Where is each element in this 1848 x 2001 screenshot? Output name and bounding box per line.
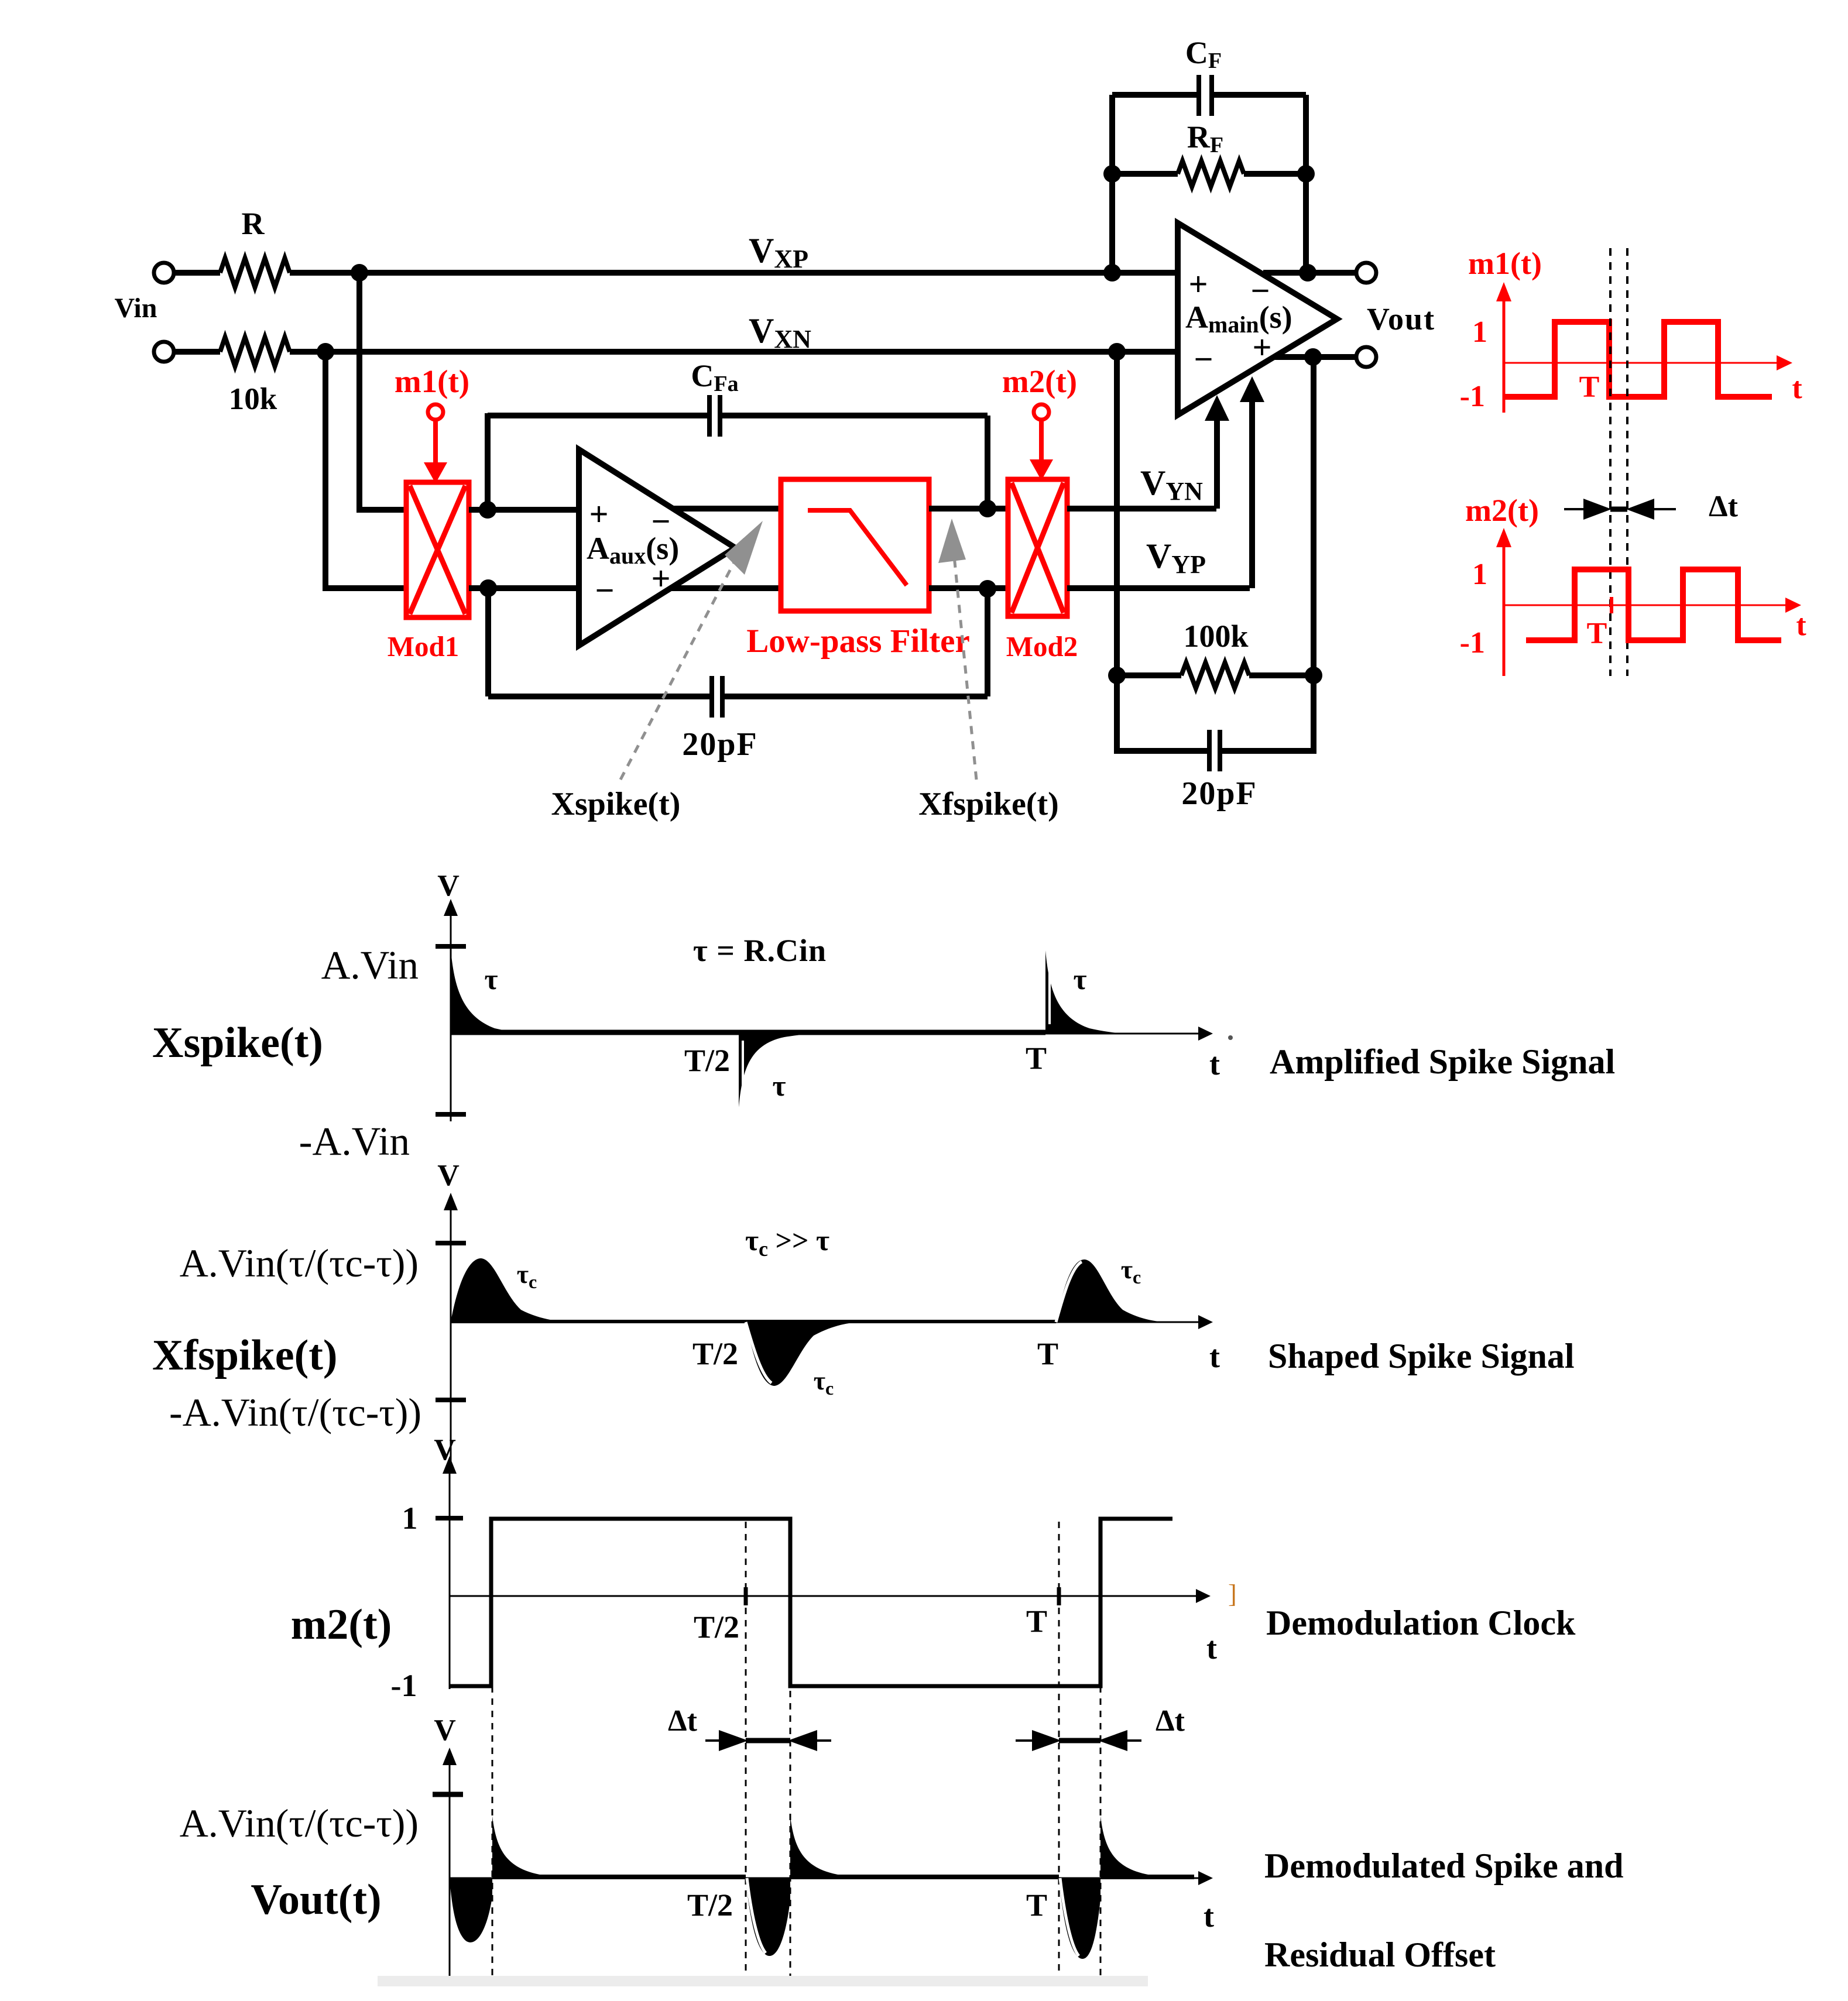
junction 100k right <box>1305 667 1322 684</box>
wire CFa feedback top run <box>488 413 709 418</box>
dashed arrow Xspike to Aaux output <box>620 550 740 780</box>
m2 clock terminal <box>1034 404 1049 420</box>
filter response curve <box>808 510 907 585</box>
svg-text:-1: -1 <box>391 1668 417 1703</box>
wire CFa feedback right riser <box>985 416 990 509</box>
dashed arrow Xfspike to filter output <box>954 556 976 780</box>
m1 mini plot x axis <box>1504 362 1780 364</box>
svg-text:-A.Vin: -A.Vin <box>299 1119 410 1163</box>
svg-text:-1: -1 <box>1460 380 1485 413</box>
stray dot artifact <box>1228 1035 1233 1040</box>
wire Mod2 upper output VYN <box>1067 506 1216 512</box>
svg-text:A.Vin(τ/(τc-τ)): A.Vin(τ/(τc-τ)) <box>180 1241 419 1285</box>
wire 20pF aux feedback right riser <box>985 589 990 696</box>
resistor 10k <box>220 337 290 366</box>
plot4 tick A.Vin(tau/(tauc-tau)) <box>433 1792 463 1797</box>
junction feedback at VXP rail <box>1103 264 1121 282</box>
svg-text:m2(t): m2(t) <box>1465 493 1539 528</box>
m2 mini plot x axis <box>1504 605 1788 606</box>
resistor 100k <box>1181 663 1249 688</box>
red tick on m2 mini axis <box>1610 597 1613 613</box>
svg-text:t: t <box>1204 1899 1214 1934</box>
svg-text:T: T <box>1579 370 1600 404</box>
plot4 positive spike at T+dt <box>1100 1816 1206 1878</box>
plot4 negative lobe at T/2 <box>746 1878 790 1956</box>
svg-text:τ: τ <box>772 1069 786 1102</box>
svg-text:Xfspike(t): Xfspike(t) <box>918 786 1059 822</box>
plot4 positive spike at t=0+ <box>492 1816 620 1878</box>
junction RF right <box>1297 165 1315 183</box>
svg-text:T/2: T/2 <box>687 1887 733 1923</box>
plot2 x axis <box>451 1322 1201 1323</box>
plot3 square wave <box>450 1519 1172 1686</box>
wire Vin- to resistor 10k <box>174 349 220 355</box>
plot1 x axis <box>451 1033 1201 1035</box>
svg-text:Vout: Vout <box>1367 301 1435 337</box>
svg-text:100k: 100k <box>1183 619 1248 654</box>
plot2 y axis <box>450 1207 452 1469</box>
svg-text:+: + <box>1188 265 1208 303</box>
svg-text:T: T <box>1037 1336 1058 1371</box>
plot3 T/2 axis tick <box>744 1587 748 1605</box>
plot1 spike at T <box>1045 950 1130 1034</box>
plot1 signal baseline (tail riding axis) <box>451 1030 1045 1035</box>
svg-text:T/2: T/2 <box>692 1336 738 1371</box>
capacitor CFa plates <box>707 395 712 437</box>
arrow VYP into Amain <box>1240 376 1264 402</box>
junction Vout- sense node <box>1304 348 1322 366</box>
wire filter lower output to Mod2 <box>929 585 1008 591</box>
VYN riser into Amain <box>1214 410 1220 509</box>
svg-text:10k: 10k <box>229 382 277 416</box>
bottom grey bar <box>378 1976 1148 1986</box>
svg-text:Shaped Spike Signal: Shaped Spike Signal <box>1268 1337 1575 1375</box>
wire 20pF aux feedback bottom run <box>488 694 712 699</box>
plot3 T axis tick <box>1057 1587 1061 1605</box>
input terminal Vin positive <box>154 263 174 283</box>
wire VXP rail <box>359 270 1178 276</box>
svg-text:1: 1 <box>1472 315 1487 349</box>
svg-text:t: t <box>1206 1631 1217 1666</box>
svg-text:-A.Vin(τ/(τc-τ)): -A.Vin(τ/(τc-τ)) <box>169 1390 421 1434</box>
dashed timing line at T <box>1058 1522 1060 1981</box>
output terminal Vout- <box>1356 347 1376 367</box>
op-amp Amain <box>1178 223 1337 415</box>
plot4 negative lobe at T <box>1059 1878 1100 1959</box>
wire Amain upper output to Vout+ <box>1263 270 1357 276</box>
20pF sense loop left side <box>1117 675 1209 751</box>
svg-text:T/2: T/2 <box>684 1043 730 1078</box>
svg-text:+: + <box>651 560 670 598</box>
junction RF left <box>1103 165 1121 183</box>
capacitor 20pF sense plates <box>1207 730 1212 771</box>
wire 20pF aux feedback left riser <box>485 588 491 696</box>
svg-text:Δt: Δt <box>1709 490 1739 523</box>
wire Mod1 upper output to Aaux + input <box>469 507 579 513</box>
svg-text:t: t <box>1209 1339 1220 1374</box>
resistor R <box>220 258 290 287</box>
VYP riser into Amain <box>1249 391 1255 588</box>
plot4 x axis <box>450 1878 1201 1879</box>
capacitor 20pF aux plates <box>709 676 714 718</box>
svg-text:Δt: Δt <box>1156 1704 1185 1738</box>
m1 mini plot y axis <box>1503 298 1506 413</box>
CF feedback top run <box>1112 92 1199 98</box>
svg-text:V: V <box>434 1433 456 1467</box>
chopper modulator Mod1 <box>406 482 469 617</box>
svg-text:-1: -1 <box>1460 626 1485 660</box>
svg-text:t: t <box>1209 1046 1220 1082</box>
plot3 y axis <box>449 1470 451 1689</box>
junction filter lower output node <box>979 580 996 598</box>
plot2 bump at t=0 <box>451 1258 577 1322</box>
plot2 tick +A.Vin(tau/(tauc-tau)) <box>436 1241 466 1245</box>
wire CFa feedback left riser <box>485 413 491 510</box>
wire 10k to node VXN tap <box>290 349 328 355</box>
svg-text:τ = R.Cin: τ = R.Cin <box>693 933 827 968</box>
svg-text:Mod2: Mod2 <box>1006 630 1078 663</box>
RF feedback wire <box>1112 171 1178 177</box>
junction Mod1 upper output node <box>479 501 496 519</box>
svg-text:Vout(t): Vout(t) <box>251 1876 381 1924</box>
low-pass filter box <box>781 479 929 611</box>
svg-text:Demodulation Clock: Demodulation Clock <box>1266 1604 1576 1642</box>
svg-text:+: + <box>1252 328 1271 366</box>
plot1 spike at T/2 (negative) <box>739 1034 818 1107</box>
junction node VXN tap <box>317 343 334 361</box>
svg-text:T: T <box>1026 1887 1047 1923</box>
wire Mod1 lower output to Aaux - input <box>469 585 579 591</box>
sense vertical from Vout- to 100k <box>1311 357 1316 675</box>
plot4 negative lobe at t=0 <box>450 1878 492 1942</box>
dashed timing line at T/2+dt <box>790 1519 791 1981</box>
svg-text:20pF: 20pF <box>1181 775 1257 812</box>
m2 mini plot y axis <box>1503 544 1506 676</box>
dashed timing line at T/2 <box>745 1522 747 1981</box>
svg-text:1: 1 <box>1472 558 1487 591</box>
plot2 signal baseline <box>451 1320 1056 1323</box>
svg-text:+: + <box>589 495 608 533</box>
junction node VXP tap <box>351 264 368 282</box>
svg-text:T/2: T/2 <box>694 1609 739 1645</box>
plot4 y axis <box>449 1762 451 1984</box>
wire filter upper output to Mod2 <box>929 506 1008 512</box>
wire node VXN down to Mod1 lower input <box>325 352 406 588</box>
dashed marker line at m2 fall <box>1626 248 1628 676</box>
svg-text:m1(t): m1(t) <box>395 363 469 399</box>
wire Vin+ to resistor R <box>174 270 220 276</box>
svg-text:τ: τ <box>484 963 498 996</box>
plot3 x axis <box>450 1595 1199 1597</box>
sense vertical wire from VXN node to 100k <box>1114 352 1120 675</box>
op-amp Aaux <box>579 449 735 646</box>
svg-text:t: t <box>1796 609 1806 642</box>
svg-text:T: T <box>1026 1604 1047 1639</box>
wire VXN rail <box>325 349 1178 355</box>
capacitor CF plates <box>1196 75 1201 116</box>
dashed timing line at first rise <box>492 1686 493 1981</box>
m1 clock terminal <box>428 404 443 420</box>
output terminal Vout+ <box>1356 263 1376 283</box>
svg-text:Residual Offset: Residual Offset <box>1264 1935 1496 1974</box>
arrow VYN into Amain <box>1205 395 1229 421</box>
svg-text:τc >> τ: τc >> τ <box>745 1224 829 1261</box>
svg-text:Mod1: Mod1 <box>388 630 460 663</box>
plot4 signal baseline tails <box>492 1875 746 1879</box>
m2 square wave <box>1526 569 1781 640</box>
svg-text:A.Vin: A.Vin <box>321 943 419 987</box>
wire node VXP down to Mod1 upper input <box>359 273 406 510</box>
svg-text:Demodulated Spike and: Demodulated Spike and <box>1264 1846 1623 1885</box>
svg-text:V: V <box>434 1714 456 1747</box>
plot1 y axis <box>450 913 452 1121</box>
plot1 tick A.Vin <box>436 944 466 949</box>
plot3 tick +1 <box>436 1516 463 1521</box>
svg-text:m2(t): m2(t) <box>291 1601 392 1649</box>
svg-text:t: t <box>1792 372 1802 405</box>
wire Aaux lower output to filter <box>671 585 781 591</box>
dashed timing line at T+dt <box>1100 1686 1102 1981</box>
input terminal Vin negative <box>154 342 174 362</box>
resistor 100k wire <box>1117 672 1181 678</box>
svg-text:20pF: 20pF <box>682 726 757 763</box>
svg-text:]: ] <box>1228 1580 1237 1608</box>
CF RF feedback left riser <box>1109 95 1115 273</box>
svg-text:A.Vin(τ/(τc-τ)): A.Vin(τ/(τc-τ)) <box>180 1801 419 1845</box>
m1 clock arrow <box>433 420 438 464</box>
plot4 positive spike at T/2+dt <box>790 1816 919 1878</box>
chopper modulator Mod2 <box>1008 479 1067 616</box>
20pF sense loop right side <box>1220 675 1314 751</box>
svg-text:1: 1 <box>402 1501 418 1536</box>
plot1 spike at t=0 <box>451 949 541 1034</box>
svg-text:Amplified Spike Signal: Amplified Spike Signal <box>1270 1042 1615 1081</box>
plot2 bump at T/2 (negative) <box>746 1322 863 1386</box>
plot2 bump at T <box>1056 1259 1171 1322</box>
svg-text:−: − <box>595 571 614 609</box>
plot1 tick -A.Vin <box>436 1112 466 1117</box>
svg-text:−: − <box>1194 340 1213 378</box>
svg-text:T: T <box>1587 617 1607 650</box>
wire R to node VXP tap <box>290 270 363 276</box>
delta-t dimension arrows (mini plots) <box>1564 508 1604 510</box>
junction Vout+ feedback node <box>1299 264 1316 282</box>
m2 clock arrow <box>1039 420 1044 461</box>
wire Amain lower output to Vout- <box>1275 354 1357 360</box>
svg-text:T: T <box>1026 1041 1047 1076</box>
svg-text:Low-pass Filter: Low-pass Filter <box>746 623 970 660</box>
svg-text:R: R <box>242 206 265 241</box>
svg-text:m2(t): m2(t) <box>1002 363 1077 399</box>
svg-text:Xspike(t): Xspike(t) <box>551 786 681 822</box>
resistor RF <box>1178 161 1244 187</box>
svg-text:Vin: Vin <box>115 293 157 324</box>
junction filter upper output node <box>979 500 996 517</box>
dashed marker line at m1 fall <box>1609 248 1612 676</box>
svg-text:m1(t): m1(t) <box>1468 246 1542 281</box>
junction Mod1 lower output node <box>479 579 497 597</box>
wire Mod2 lower output VYP <box>1067 585 1250 591</box>
svg-text:V: V <box>437 869 460 902</box>
svg-text:Δt: Δt <box>668 1704 698 1738</box>
plot2 tick -A.Vin(tau/(tauc-tau)) <box>436 1398 466 1402</box>
svg-text:Xfspike(t): Xfspike(t) <box>152 1331 338 1379</box>
svg-text:V: V <box>437 1159 460 1192</box>
svg-text:Xspike(t): Xspike(t) <box>152 1019 323 1067</box>
m1 square wave <box>1504 322 1772 397</box>
junction 100k left <box>1108 667 1126 684</box>
wire Aaux upper output to filter <box>673 506 781 512</box>
CF RF feedback right riser <box>1303 95 1309 273</box>
svg-text:τ: τ <box>1073 963 1086 996</box>
